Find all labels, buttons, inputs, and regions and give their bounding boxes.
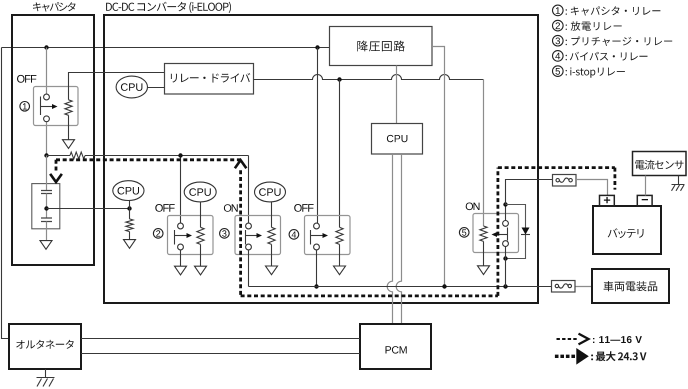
ground: current sensor (678, 176, 680, 185)
wire: main bus y=286 (576, 286, 593, 288)
wire: step-down bottom to CPU box (gray) (396, 66, 398, 124)
resistor on capacitor line (70, 152, 85, 159)
node: junction relay4/bus (314, 284, 318, 288)
label: legend 1 キャパシタ・リレー (553, 5, 564, 16)
node: junction driver line / relay4 coil feed (337, 77, 341, 81)
wire: relay1 contact feed x=46 (gray) (46, 48, 48, 156)
label: circled 3 (220, 229, 230, 239)
wire: sensor to battery - (645, 176, 647, 196)
node: junction A above relay5 (503, 202, 507, 206)
label: circled 2 (153, 229, 163, 239)
relay box 1 (34, 87, 79, 126)
wire: capacitor bottom to ground arrow (46, 222, 48, 241)
box: CPU (main) (372, 124, 423, 155)
label: OFF relay2 (155, 204, 174, 212)
relay4 coil (336, 227, 343, 244)
box: vehicle electrical loads 車両電装品 (592, 269, 669, 303)
wire: relay driver output y=80 with hops (254, 75, 484, 80)
ground: alternator (45, 369, 47, 378)
relay2 contacts (178, 223, 184, 229)
relay4 armature (OFF) (310, 230, 312, 245)
wire: relay4 contact bottom to bus (316, 250, 318, 287)
wire: dotted bus y=296.4 (241, 294, 498, 297)
wire: relay2 contact feed (180, 156, 182, 224)
wire: CPU to PCM line A with hop (387, 154, 392, 324)
relay5 contacts (503, 221, 509, 227)
label: DC-DC コンバータ (i-ELOOP) (106, 2, 231, 13)
node: junction capacitor top bus / relay1 feed (44, 45, 48, 49)
label: legend 3 プリチャージ・リレー (553, 35, 564, 46)
box: capacitor unit (キャパシタ) (12, 15, 94, 265)
wire: CPU3 to relay3 coil (271, 202, 273, 227)
wire: relay3 contact feed from cap line (248, 156, 250, 224)
legend: thick dashed arrow max 24.3V (555, 355, 575, 358)
wire: relay4 contact feed x=317 (317, 48, 319, 224)
wire: capacitor line y=155.5 with resistor (47, 155, 249, 157)
wire: step-down right output to bus (432, 47, 445, 287)
op: CPU1 (voltage sense) (113, 181, 144, 201)
node: junction bus / relay5 (503, 284, 507, 288)
battery + terminal (600, 195, 615, 205)
label: circled 5 (459, 228, 469, 238)
label: legend 5 i-stopリレー (553, 66, 564, 77)
wire+arrow: relay4 coil bottom (339, 244, 341, 266)
wire+arrow: relay1 coil lower to arrow (68, 115, 70, 139)
box: relay driver (165, 64, 254, 95)
wire: dotted capacitor charge line y=159.8 (56, 158, 241, 161)
fuse F1 (to battery +) (553, 175, 577, 187)
op: CPU3 (255, 182, 286, 202)
wire: dotted vertical x=240.6 (239, 170, 242, 296)
box: alternator オルタネータ (9, 324, 81, 369)
wire: relay5 contact top to junction A (505, 205, 507, 221)
box: DC-DC converter (i-ELOOP) (104, 15, 538, 303)
wire: far-left drop from top bus to alternator (2, 48, 10, 339)
op: CPU (relay driver) (116, 76, 147, 98)
label: ON relay3 (224, 204, 238, 212)
relay3 contacts (246, 223, 252, 229)
relay box 5 (473, 214, 519, 253)
wire: capacitor top bus y=47 (2, 47, 330, 49)
node: junction capacitor / line to relays (44, 153, 48, 157)
relay1 contact circles (44, 94, 50, 100)
relay2 coil (197, 227, 204, 244)
label: リレー・ドライバ (171, 73, 250, 83)
relay1 coil R (65, 100, 72, 116)
diode D (across relay5) (522, 228, 530, 235)
legend: dashed arrow 11-16V (557, 338, 578, 340)
wire+arrow: relay3 coil bottom (271, 244, 273, 266)
relay3 armature (ON) (245, 230, 247, 245)
label: ON relay5 (466, 203, 480, 211)
label: キャパシタ (33, 2, 76, 11)
wire+arrow: divider to arrow (129, 232, 131, 240)
fuse F2 (to vehicle loads) (552, 281, 576, 293)
label: OFF relay1 (17, 75, 36, 83)
wire: dotted drop to battery + (614, 168, 617, 190)
op: CPU2 (184, 182, 216, 202)
battery box バッテリ (593, 206, 661, 254)
node: junction cap line / relay2 (178, 153, 182, 157)
wire: capacitor midpoint (46, 194, 48, 218)
relay box 2 (168, 216, 214, 255)
wire+arrow: relay2 coil bottom (200, 244, 202, 266)
box: step-down circuit 降圧回路 (330, 27, 433, 66)
wire: capacitor midpoint sense line y=208.2 (47, 208, 130, 210)
relay3 coil (268, 227, 275, 244)
wire: CPU2 to relay2 coil (200, 202, 202, 227)
relay5 coil (480, 226, 487, 241)
wire: CPU1 stub (129, 201, 131, 219)
capacitor C plates (upper) (41, 191, 52, 194)
wire: fuse1 to battery + (576, 180, 608, 196)
wire+arrow: relay2 contact bottom (180, 250, 182, 266)
wire: dotted top y=167.6 to battery (498, 166, 615, 169)
relay2 armature (OFF) (174, 230, 176, 245)
box: PCM (360, 324, 431, 369)
wire: relay4 coil feed x=339.8 (339, 80, 341, 228)
resistor: CPU1 divider (126, 219, 133, 232)
label: circled 1 (20, 102, 30, 112)
relay5 armature (ON, mirrored) (507, 228, 509, 241)
relay box 3 (235, 216, 281, 255)
label: 降圧回路 (357, 41, 405, 52)
battery - terminal (637, 195, 652, 205)
relay box 4 (305, 216, 351, 255)
arrow: dotted up chevron at x=240.6 (236, 160, 246, 167)
wire+arrow: relay5 coil bottom (483, 241, 485, 265)
wire: dotted stub + down arrow into capacitor (55, 160, 58, 173)
wire: dotted riser x=497.9 (496, 168, 499, 296)
relay1 armature (OFF) (40, 97, 42, 116)
wire: junction A up and right to fuse1 (506, 180, 553, 205)
wire: capacitor feed (gray) (46, 156, 48, 191)
relay4 contacts (314, 223, 320, 229)
label: circled 4 (289, 230, 299, 240)
label: OFF relay4 (294, 204, 313, 212)
node: junction B below relay5 (503, 256, 507, 260)
wire: diode branch (506, 205, 526, 259)
label: legend 4 バイパス・リレー (553, 51, 564, 62)
capacitor inner box (32, 184, 60, 229)
wire: CPU to relay driver (148, 87, 165, 89)
node: junction bus / step-down output (442, 284, 446, 288)
label: legend 2 放電リレー (553, 20, 564, 31)
node: capacitor midpoint junction (44, 206, 48, 210)
node: junction at CPU1 divider (127, 206, 131, 210)
wire: relay3 contact bottom to bus (248, 250, 250, 287)
node: junction top bus / relay4 contact feed (315, 45, 319, 49)
wire: relay1 coil to relay driver y=72.4 (69, 73, 165, 100)
wire: relay5 coil feed x=482.5 (483, 80, 485, 227)
wire: alternator to PCM lines (81, 339, 360, 354)
wire: CPU to PCM line B with hop (396, 154, 401, 324)
wire: relay5 contact bottom to junction B to bus (505, 246, 507, 286)
capacitor C plates (lower) (41, 218, 52, 222)
box: current sensor 電流センサ (633, 152, 687, 176)
